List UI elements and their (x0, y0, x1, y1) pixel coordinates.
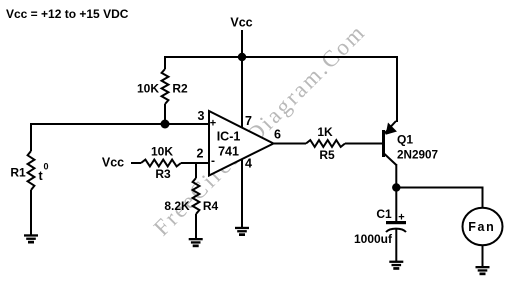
svg-text:8.2K: 8.2K (164, 199, 190, 213)
svg-text:Fan: Fan (468, 220, 495, 234)
wire collector down (395, 164, 397, 188)
wire fan branch down (482, 187, 484, 208)
svg-text:R5: R5 (319, 148, 335, 162)
svg-text:R1: R1 (10, 166, 26, 180)
fan M1 (motor circle) (463, 208, 503, 245)
svg-text:3: 3 (198, 109, 205, 123)
wire R2 bottom to junction (164, 104, 166, 124)
wire top Vcc rail horizontal (164, 56, 398, 58)
svg-text:Q1: Q1 (397, 133, 413, 147)
ground (pin 4) (235, 227, 249, 236)
svg-text:10K: 10K (151, 145, 173, 159)
resistor R2 (162, 69, 169, 104)
svg-text:R2: R2 (172, 82, 188, 96)
svg-text:IC-1: IC-1 (217, 130, 241, 144)
wire pin 7 (from rail to op-amp top edge) (241, 57, 243, 128)
capacitor C1 top plate (386, 221, 406, 224)
svg-text:-: - (211, 154, 215, 168)
transistor collector diagonal (384, 154, 396, 166)
svg-text:R4: R4 (203, 199, 219, 213)
ground (R1) (24, 234, 38, 243)
svg-text:2N2907: 2N2907 (397, 149, 438, 162)
wire R1 top vertical (30, 123, 32, 151)
transistor Q1 2N2907 base bar (382, 130, 385, 157)
wire pin3 horizontal (R1 to op-amp) (30, 123, 209, 125)
wire rail left corner down to R2 (164, 56, 166, 69)
junction dot at Vcc rail (238, 53, 246, 61)
svg-text:1K: 1K (317, 125, 333, 139)
wire fan bottom (482, 245, 484, 267)
wire emitter up to rail (396, 56, 398, 122)
transistor emitter arrow (PNP) (386, 124, 396, 135)
svg-text:0: 0 (44, 162, 49, 172)
svg-text:R3: R3 (155, 167, 171, 181)
svg-text:+: + (398, 212, 404, 224)
resistor R5 (306, 140, 345, 147)
wire Vcc stub vertical (241, 30, 243, 57)
ground (R4) (189, 238, 203, 247)
wire R5 to base (345, 143, 382, 145)
svg-text:4: 4 (245, 157, 252, 171)
wire Vcc to R3 (131, 162, 141, 164)
transistor emitter diagonal (384, 121, 396, 134)
svg-text:6: 6 (274, 128, 281, 142)
wire pin 6 output to R5 (274, 143, 306, 145)
wire collector node to fan branch (396, 187, 482, 189)
wire pin 4 (op-amp bottom edge to ground) (241, 159, 243, 228)
resistor R3 (141, 160, 181, 167)
svg-text:Vcc = +12 to +15 VDC: Vcc = +12 to +15 VDC (6, 7, 129, 21)
wire C1 bottom (395, 229, 397, 262)
svg-text:Vcc: Vcc (230, 16, 252, 30)
svg-text:Vcc: Vcc (102, 156, 124, 170)
svg-text:10K: 10K (137, 82, 159, 96)
junction dot collector node (392, 183, 400, 191)
ground (C1) (389, 261, 403, 270)
svg-text:2: 2 (197, 147, 204, 161)
wire down to C1 (395, 188, 397, 222)
wire R4 bottom (195, 214, 197, 239)
wire R4 branch down (195, 162, 197, 178)
svg-text:7: 7 (245, 114, 252, 128)
resistor R4 (193, 178, 200, 214)
wire R3 to pin2 (181, 162, 209, 164)
op-amp U1 IC-1 741 (209, 111, 274, 176)
junction dot at pin3 wire (161, 120, 170, 129)
svg-text:C1: C1 (376, 207, 392, 221)
svg-text:1000uf: 1000uf (354, 232, 393, 246)
resistor R1 (thermistor) (28, 151, 35, 190)
svg-text:741: 741 (218, 145, 239, 159)
svg-text:+: + (210, 118, 216, 130)
capacitor C1 bottom plate (curved) (386, 229, 406, 232)
ground (Fan) (476, 266, 490, 275)
wire R1 bottom (30, 190, 32, 235)
